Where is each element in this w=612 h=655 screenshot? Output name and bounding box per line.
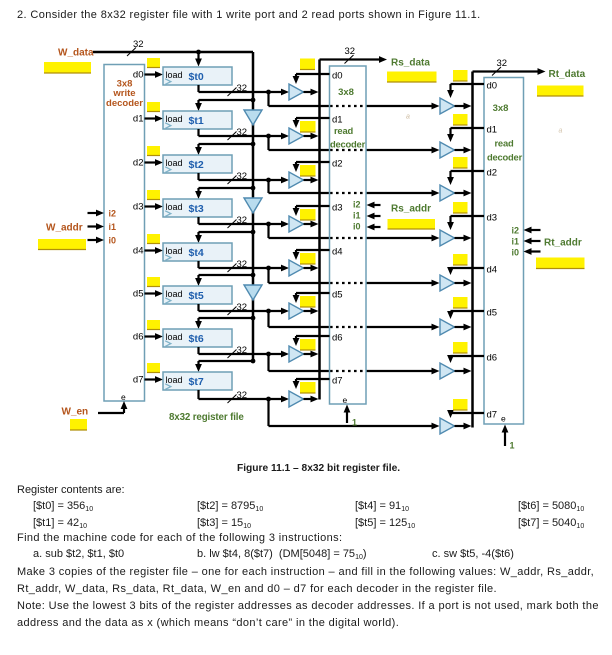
- tri-state buffer Rt0: [440, 98, 455, 114]
- net Rt_addr label: [544, 238, 582, 249]
- wire Rs d0 enable: [293, 74, 330, 84]
- tri-state buffer Rs1: [289, 128, 304, 144]
- svg-text:d5: d5: [133, 289, 144, 300]
- wire Rs buffer 6 output: [304, 351, 319, 358]
- register $t6 load pin label: [166, 332, 183, 342]
- wire $t2 output: [199, 173, 290, 183]
- svg-text:d5: d5: [487, 308, 498, 319]
- wire Rt d3 enable: [447, 216, 484, 230]
- tri-state buffer Rt3: [440, 230, 455, 246]
- net W_data label: [58, 48, 94, 59]
- wire d2 to register load: [145, 159, 164, 166]
- junction $t0 output branch: [266, 90, 271, 95]
- svg-text:d0: d0: [133, 70, 144, 81]
- svg-text:32: 32: [133, 39, 144, 50]
- svg-text:Rt_addr: Rt_addr: [544, 238, 582, 249]
- blank highlight d3 write: [147, 190, 160, 200]
- register $t2 box: [163, 155, 232, 173]
- svg-text:W_en: W_en: [62, 407, 89, 418]
- decoder U3 3x8 read decoder (Rt) box: [484, 78, 524, 425]
- register $t0 clock chevron: [165, 79, 171, 85]
- wire d6 to register load: [145, 333, 164, 340]
- register $t3 load pin label: [166, 202, 183, 212]
- wire Rt d2 enable: [447, 171, 484, 185]
- decoder U2 3x8 read decoder (Rs) box: [330, 66, 367, 404]
- label 3x8 read decoder (Rs): [330, 87, 366, 150]
- wire Rt d7 enable: [447, 410, 484, 418]
- svg-text:e: e: [343, 395, 348, 405]
- svg-text:i1: i1: [511, 237, 519, 247]
- wire Rs_addr i0: [367, 224, 381, 231]
- register $t2 clock chevron: [165, 167, 171, 173]
- bus width label 32 on $t0 output: [228, 83, 248, 96]
- register $t5 box: [163, 286, 232, 304]
- blank highlight Rt d1: [453, 114, 468, 125]
- blank highlight Rs d1: [300, 121, 316, 132]
- junction W_data tap for $t4: [251, 230, 256, 235]
- register $t6 clock chevron: [165, 341, 171, 347]
- wire Rs buffer 4 output: [304, 265, 319, 272]
- wire $t1 output to Rt buffer: [269, 136, 440, 153]
- write decoder output d0 label: [133, 70, 144, 81]
- blank highlight d1 write: [147, 102, 160, 112]
- bus width label 32 on $t6 output: [228, 345, 248, 358]
- wire W_data tap to $t7: [195, 361, 253, 372]
- svg-text:32: 32: [237, 83, 248, 94]
- bus width label 32 on $t1 output: [228, 127, 248, 140]
- wire Rt buffer 0 output: [455, 103, 472, 110]
- register $t0 load pin label: [166, 70, 183, 80]
- blank highlight d0 write: [147, 58, 160, 68]
- svg-text:32: 32: [237, 215, 248, 226]
- blank highlight Rs d2: [300, 165, 316, 176]
- Rs decoder output d6 label: [332, 333, 343, 344]
- wire d0 to register load: [145, 71, 164, 78]
- svg-text:d1: d1: [487, 125, 498, 136]
- svg-text:d7: d7: [133, 375, 144, 386]
- svg-text:d3: d3: [332, 203, 343, 214]
- constant 1 Rs enable: [352, 418, 357, 428]
- svg-text:d1: d1: [332, 115, 343, 126]
- wire Rs buffer 2 output: [304, 177, 319, 184]
- blank highlight d6 write: [147, 320, 160, 330]
- svg-text:load: load: [166, 332, 183, 342]
- net W_en label: [62, 407, 89, 418]
- svg-text:d4: d4: [332, 247, 343, 258]
- blank highlight for W_data: [44, 62, 91, 73]
- Rt decoder output d5 label: [487, 308, 498, 319]
- svg-text:32: 32: [237, 171, 248, 182]
- net W_addr label: [46, 223, 83, 234]
- bus arrow on W_data at $t5: [244, 285, 262, 300]
- wire Rs buffer 7 output: [304, 396, 319, 403]
- wire Rt d1 enable: [447, 128, 484, 142]
- wire W_addr i1: [88, 223, 105, 230]
- svg-text:W_addr: W_addr: [46, 223, 83, 234]
- wire Rs buffer 0 output: [304, 89, 319, 96]
- blank highlight for Rs_addr: [388, 219, 436, 229]
- pin i0 Rt decoder: [511, 248, 519, 258]
- svg-text:$t4: $t4: [189, 247, 204, 259]
- wire Rs d1 enable: [293, 118, 330, 128]
- svg-text:$t2: $t2: [189, 159, 204, 171]
- tri-state buffer Rt1: [440, 142, 455, 158]
- pin e write decoder: [121, 392, 126, 402]
- wire W_data horizontal: [93, 51, 253, 54]
- blank highlight d4 write: [147, 234, 160, 244]
- tri-state buffer Rs5: [289, 303, 304, 319]
- svg-text:Rs_addr: Rs_addr: [391, 204, 431, 215]
- blank highlight Rs d4: [300, 253, 316, 264]
- svg-text:load: load: [166, 70, 183, 80]
- tri-state buffer Rs7: [289, 391, 304, 407]
- wire Rs_data output: [320, 56, 388, 63]
- stray faint mark a: [406, 114, 410, 121]
- wire $t0 output to Rt buffer: [269, 92, 440, 109]
- wire Rt buffer 4 output: [455, 280, 472, 287]
- register $t5 clock chevron: [165, 298, 171, 304]
- Rs decoder output d3 label: [332, 203, 343, 214]
- svg-text:i1: i1: [109, 222, 117, 232]
- blank highlight for Rt_data: [537, 86, 584, 97]
- wire Rt d5 enable: [447, 311, 484, 319]
- pin i0 write decoder: [109, 236, 117, 246]
- register $t4 clock chevron: [165, 255, 171, 261]
- svg-text:32: 32: [497, 58, 508, 69]
- svg-text:32: 32: [345, 46, 356, 57]
- wire d3 to register load: [145, 203, 164, 210]
- svg-text:$t7: $t7: [189, 376, 204, 388]
- svg-text:load: load: [166, 289, 183, 299]
- tri-state buffer Rt5: [440, 319, 455, 335]
- svg-text:32: 32: [237, 390, 248, 401]
- svg-text:i2: i2: [511, 226, 519, 236]
- junction $t1 output branch: [266, 134, 271, 139]
- svg-text:$t5: $t5: [189, 290, 204, 302]
- blank highlight Rs d7: [300, 382, 316, 393]
- wire Rs_addr i2: [367, 202, 381, 209]
- wire $t7 output: [199, 390, 290, 402]
- wire W_data tap to $t4: [195, 232, 253, 243]
- junction $t6 output branch: [266, 352, 271, 357]
- svg-text:d4: d4: [487, 265, 498, 276]
- svg-text:32: 32: [237, 345, 248, 356]
- constant 1 Rt enable: [510, 441, 515, 451]
- svg-text:d1: d1: [133, 114, 144, 125]
- register $t6 box: [163, 329, 232, 347]
- register $t5 load pin label: [166, 289, 183, 299]
- stray faint mark b: [559, 128, 563, 135]
- bus Rt_data vertical: [471, 72, 474, 428]
- pin i1 Rs decoder: [353, 211, 361, 221]
- wire Rs d4 enable: [293, 250, 330, 260]
- svg-text:d2: d2: [133, 158, 144, 169]
- svg-text:1: 1: [510, 441, 515, 451]
- blank highlight for Rs_data: [387, 72, 437, 83]
- tri-state buffer Rs4: [289, 260, 304, 276]
- wire W_en to enable: [98, 401, 127, 413]
- svg-text:32: 32: [237, 302, 248, 313]
- bus width label 32 on Rs_data: [345, 46, 356, 64]
- wire $t5 output to Rt buffer: [269, 311, 440, 330]
- svg-text:d7: d7: [332, 376, 343, 387]
- Rt decoder output d2 label: [487, 168, 498, 179]
- junction $t2 output branch: [266, 178, 271, 183]
- register $t4 load pin label: [166, 246, 183, 256]
- register $t7 box: [163, 372, 232, 390]
- svg-text:d6: d6: [487, 353, 498, 364]
- bus W_data vertical: [252, 52, 255, 362]
- svg-text:8x32 register file: 8x32 register file: [169, 412, 244, 423]
- junction $t5 output branch: [266, 309, 271, 314]
- wire W_data tap to $t6: [195, 318, 253, 329]
- write decoder output d6 label: [133, 332, 144, 343]
- write decoder output d1 label: [133, 114, 144, 125]
- bus width label 32 on $t7 output: [228, 390, 248, 403]
- register $t2 load pin label: [166, 158, 183, 168]
- svg-text:d3: d3: [487, 213, 498, 224]
- wire enable Rs decoder: [344, 405, 351, 424]
- Rs decoder output d4 label: [332, 247, 343, 258]
- blank highlight Rs d5: [300, 296, 316, 307]
- Rt decoder output d3 label: [487, 213, 498, 224]
- wire d4 to register load: [145, 247, 164, 254]
- junction W_data tap for $t6: [251, 316, 256, 321]
- register $t5 name label: [189, 290, 204, 302]
- svg-text:e: e: [501, 414, 506, 424]
- svg-text:load: load: [166, 114, 183, 124]
- bus width label 32 on Rt_data: [492, 58, 507, 76]
- label 3x8 read decoder (Rt): [487, 103, 523, 163]
- wire Rs buffer 3 output: [304, 221, 319, 228]
- svg-text:load: load: [166, 158, 183, 168]
- tri-state buffer Rt2: [440, 185, 455, 201]
- svg-text:read: read: [494, 138, 513, 149]
- svg-text:3x8: 3x8: [493, 103, 509, 114]
- junction $t4 output branch: [266, 266, 271, 271]
- wire enable Rt decoder: [502, 425, 509, 447]
- blank highlight d2 write: [147, 146, 160, 156]
- pin i1 write decoder: [109, 222, 117, 232]
- bus arrow on W_data at $t3: [244, 198, 262, 213]
- register $t6 name label: [189, 333, 204, 345]
- svg-text:d7: d7: [487, 410, 498, 421]
- junction W_data tap for $t2: [251, 142, 256, 147]
- svg-text:e: e: [121, 392, 126, 402]
- blank highlight for W_addr: [38, 239, 86, 250]
- svg-text:Rs_data: Rs_data: [391, 58, 430, 69]
- wire $t6 output: [199, 347, 290, 357]
- wire Rs_addr i1: [367, 213, 381, 220]
- Rs decoder output d0 label: [332, 71, 343, 82]
- blank highlight Rs d6: [300, 339, 316, 350]
- Rt decoder output d6 label: [487, 353, 498, 364]
- register $t0 box: [163, 67, 232, 85]
- register $t7 name label: [189, 376, 204, 388]
- blank highlight Rt d3: [453, 202, 468, 213]
- wire Rs buffer 5 output: [304, 308, 319, 315]
- wire W_addr i0: [88, 237, 105, 244]
- wire d5 to register load: [145, 290, 164, 297]
- svg-text:load: load: [166, 246, 183, 256]
- register $t4 name label: [189, 247, 204, 259]
- pin i2 Rt decoder: [511, 226, 519, 236]
- net Rt_data label: [549, 69, 586, 80]
- svg-text:i2: i2: [109, 209, 117, 219]
- wire Rs d3 enable: [293, 206, 330, 216]
- Rt decoder output d0 label: [487, 81, 498, 92]
- svg-text:a: a: [406, 114, 410, 121]
- wire Rt buffer 6 output: [455, 368, 472, 375]
- decoder U1 3x8 write decoder box: [104, 65, 145, 402]
- svg-text:i0: i0: [109, 236, 117, 246]
- svg-text:load: load: [166, 202, 183, 212]
- Rt decoder output d4 label: [487, 265, 498, 276]
- bus width label 32 on $t2 output: [228, 171, 248, 184]
- write decoder output d5 label: [133, 289, 144, 300]
- svg-text:i1: i1: [353, 211, 361, 221]
- junction $t3 output branch: [266, 222, 271, 227]
- blank highlight Rt d6: [453, 342, 468, 353]
- svg-text:d4: d4: [133, 246, 144, 257]
- register $t3 clock chevron: [165, 211, 171, 217]
- register $t2 name label: [189, 159, 204, 171]
- write decoder output d2 label: [133, 158, 144, 169]
- blank highlight Rt d5: [453, 297, 468, 308]
- tri-state buffer Rt7: [440, 418, 455, 434]
- register $t1 clock chevron: [165, 123, 171, 129]
- svg-text:32: 32: [237, 259, 248, 270]
- net Rs_data label: [391, 58, 430, 69]
- junction W_data tap for $t7: [251, 359, 256, 364]
- svg-text:i0: i0: [353, 222, 361, 232]
- wire $t0 output: [199, 85, 290, 95]
- wire Rt_data output: [473, 68, 546, 75]
- pin i2 Rs decoder: [353, 200, 361, 210]
- tri-state buffer Rs3: [289, 216, 304, 232]
- blank highlight Rt d0: [453, 70, 468, 81]
- pin e Rs decoder: [343, 395, 348, 405]
- svg-text:W_data: W_data: [58, 48, 94, 59]
- bus Rs_data vertical: [318, 60, 321, 400]
- label 8x32 register file: [169, 412, 244, 423]
- junction $t7 output branch: [266, 397, 271, 402]
- wire $t4 output to Rt buffer: [269, 268, 440, 286]
- blank highlight Rt d4: [453, 254, 468, 265]
- tri-state buffer Rs2: [289, 172, 304, 188]
- blank highlight Rs d0: [300, 59, 315, 70]
- wire Rt_addr i1: [524, 238, 541, 245]
- bus arrow on W_data at $t1: [244, 110, 262, 125]
- svg-text:1: 1: [352, 418, 357, 428]
- blank highlight Rt d2: [453, 157, 468, 168]
- svg-text:d0: d0: [332, 71, 343, 82]
- wire $t3 output to Rt buffer: [269, 224, 440, 241]
- register $t7 load pin label: [166, 375, 183, 385]
- wire W_data into $t0: [195, 52, 202, 67]
- register $t3 name label: [189, 203, 204, 215]
- svg-text:3x8: 3x8: [338, 87, 354, 98]
- wire Rt buffer 3 output: [455, 235, 472, 242]
- register $t4 box: [163, 243, 232, 261]
- net Rs_addr label: [391, 204, 431, 215]
- Rs decoder output d2 label: [332, 159, 343, 170]
- wire Rt d0 enable: [447, 84, 484, 98]
- wire W_data tap to $t5: [195, 275, 253, 286]
- write decoder output d7 label: [133, 375, 144, 386]
- blank highlight for Rt_addr: [536, 258, 585, 269]
- blank highlight Rs d3: [300, 209, 316, 220]
- junction W_data tap for $t3: [251, 186, 256, 191]
- svg-text:Rt_data: Rt_data: [549, 69, 586, 80]
- wire W_addr i2: [88, 210, 105, 217]
- svg-text:$t6: $t6: [189, 333, 204, 345]
- wire Rt buffer 5 output: [455, 324, 472, 331]
- wire Rt buffer 2 output: [455, 190, 472, 197]
- pin i0 Rs decoder: [353, 222, 361, 232]
- blank highlight d7 write: [147, 363, 160, 373]
- wire $t7 output to Rt buffer: [269, 399, 440, 429]
- svg-text:d2: d2: [487, 168, 498, 179]
- junction W_data tap for $t1: [251, 98, 256, 103]
- register $t7 clock chevron: [165, 384, 171, 390]
- bus width label 32 on $t3 output: [228, 215, 248, 228]
- svg-text:$t3: $t3: [189, 203, 204, 215]
- svg-text:load: load: [166, 375, 183, 385]
- bus width label 32 on W_data: [127, 39, 144, 56]
- Rt decoder output d7 label: [487, 410, 498, 421]
- wire Rt d6 enable: [447, 355, 484, 363]
- bus width label 32 on $t4 output: [228, 259, 248, 272]
- wire $t4 output: [199, 261, 290, 271]
- wire $t1 output: [199, 129, 290, 139]
- wire W_data tap to $t3: [195, 188, 253, 199]
- wire $t5 output: [199, 304, 290, 314]
- write decoder output d4 label: [133, 246, 144, 257]
- svg-text:32: 32: [237, 127, 248, 138]
- svg-text:decoder: decoder: [330, 139, 366, 150]
- svg-text:d6: d6: [332, 333, 343, 344]
- junction W_data to $t0: [196, 50, 201, 55]
- blank highlight for W_en: [70, 419, 87, 430]
- blank highlight Rt d7: [453, 399, 468, 410]
- svg-text:d3: d3: [133, 202, 144, 213]
- Rs decoder output d7 label: [332, 376, 343, 387]
- svg-text:decoder: decoder: [106, 98, 143, 109]
- svg-text:a: a: [559, 128, 563, 135]
- register $t1 name label: [189, 115, 204, 127]
- svg-text:read: read: [334, 125, 353, 136]
- wire Rt_addr i2: [524, 227, 541, 234]
- svg-text:$t0: $t0: [189, 71, 204, 83]
- wire W_data tap to $t1: [195, 100, 253, 111]
- wire Rt_addr i0: [524, 248, 541, 255]
- register $t3 box: [163, 199, 232, 217]
- Rs decoder output d5 label: [332, 290, 343, 301]
- wire d1 to register load: [145, 115, 164, 122]
- write decoder output d3 label: [133, 202, 144, 213]
- Rs decoder output d1 label: [332, 115, 343, 126]
- wire $t3 output: [199, 217, 290, 227]
- wire W_data tap to $t2: [195, 144, 253, 155]
- svg-text:i0: i0: [511, 248, 519, 258]
- svg-text:d6: d6: [133, 332, 144, 343]
- junction W_data tap for $t5: [251, 273, 256, 278]
- wire $t2 output to Rt buffer: [269, 180, 440, 196]
- wire Rt buffer 1 output: [455, 147, 472, 154]
- bus width label 32 on $t5 output: [228, 302, 248, 315]
- pin i2 write decoder: [109, 209, 117, 219]
